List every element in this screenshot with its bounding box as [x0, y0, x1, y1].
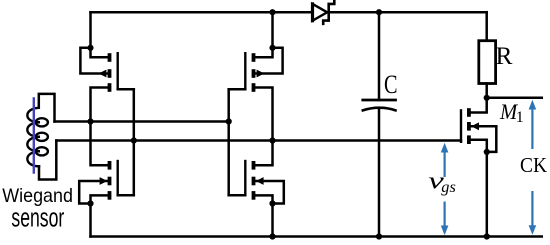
svg-text:1: 1: [516, 109, 524, 126]
svg-text:R: R: [496, 42, 513, 70]
wire line1 sensor top rail: [55, 120, 229, 123]
wire col1 gate vertical: [133, 89, 136, 195]
capacitor C: [363, 12, 396, 236]
pmos Q3 (top-right, diode-connected): [229, 48, 283, 141]
wire resistor to node: [485, 84, 488, 98]
nmos Q4 (bottom-right, diode-connected): [229, 161, 284, 204]
zener diode D1: [313, 1, 335, 24]
node Q3 drain junction: [269, 45, 275, 51]
Wiegand sensor coil: [27, 108, 48, 167]
node line1 col2 gates: [226, 118, 232, 124]
node line1 col1: [87, 118, 93, 124]
arrow CK (blue double-headed): [529, 100, 537, 235]
nmos Q2 (bottom-left, diode-connected): [79, 161, 134, 204]
wire col2 top: [271, 12, 274, 48]
node Q1 drain/gate-loop junction: [87, 45, 93, 51]
node M1 drain: [484, 95, 490, 101]
node bottom rail M1 source: [484, 233, 490, 239]
node col1 gates to line2: [131, 137, 137, 143]
wire M1 drain to CK: [487, 97, 542, 100]
node bottom rail col2: [269, 233, 275, 239]
wire line2 sensor bottom rail to M1 gate: [56, 139, 461, 142]
svg-text:sensor: sensor: [11, 203, 64, 233]
Wiegand wire (blue): [33, 99, 35, 173]
wire col1 mid vertical: [91, 122, 108, 166]
resistor R: [479, 41, 496, 84]
node M1 source/body junction: [484, 149, 490, 155]
Wiegand sensor coil leads: [39, 94, 55, 122]
svg-text:C: C: [384, 70, 398, 99]
wire Q2 source to bottom rail: [89, 204, 92, 237]
node line2 col2: [269, 137, 275, 143]
wire top rail to resistor: [485, 12, 488, 41]
wire top rail: [91, 11, 487, 14]
nmos M1: [461, 98, 496, 237]
node Q2 source/body junction: [87, 200, 93, 206]
node top rail capacitor: [376, 9, 382, 15]
node Q4 source/body junction: [269, 200, 275, 206]
wire col2 gate vertical: [227, 89, 230, 195]
svg-text:CK: CK: [520, 153, 547, 177]
wire bottom rail: [91, 235, 542, 238]
pmos Q1 (top-left, diode-connected): [80, 48, 133, 122]
node top rail col2: [269, 9, 275, 15]
wire left column top: [89, 12, 92, 48]
wire Q4 source to bottom rail: [271, 204, 274, 237]
svg-text:gs: gs: [441, 179, 456, 196]
arrow vgs (blue double-headed): [441, 143, 449, 235]
node bottom rail capacitor: [376, 233, 382, 239]
wire col2 mid vertical: [255, 141, 272, 166]
